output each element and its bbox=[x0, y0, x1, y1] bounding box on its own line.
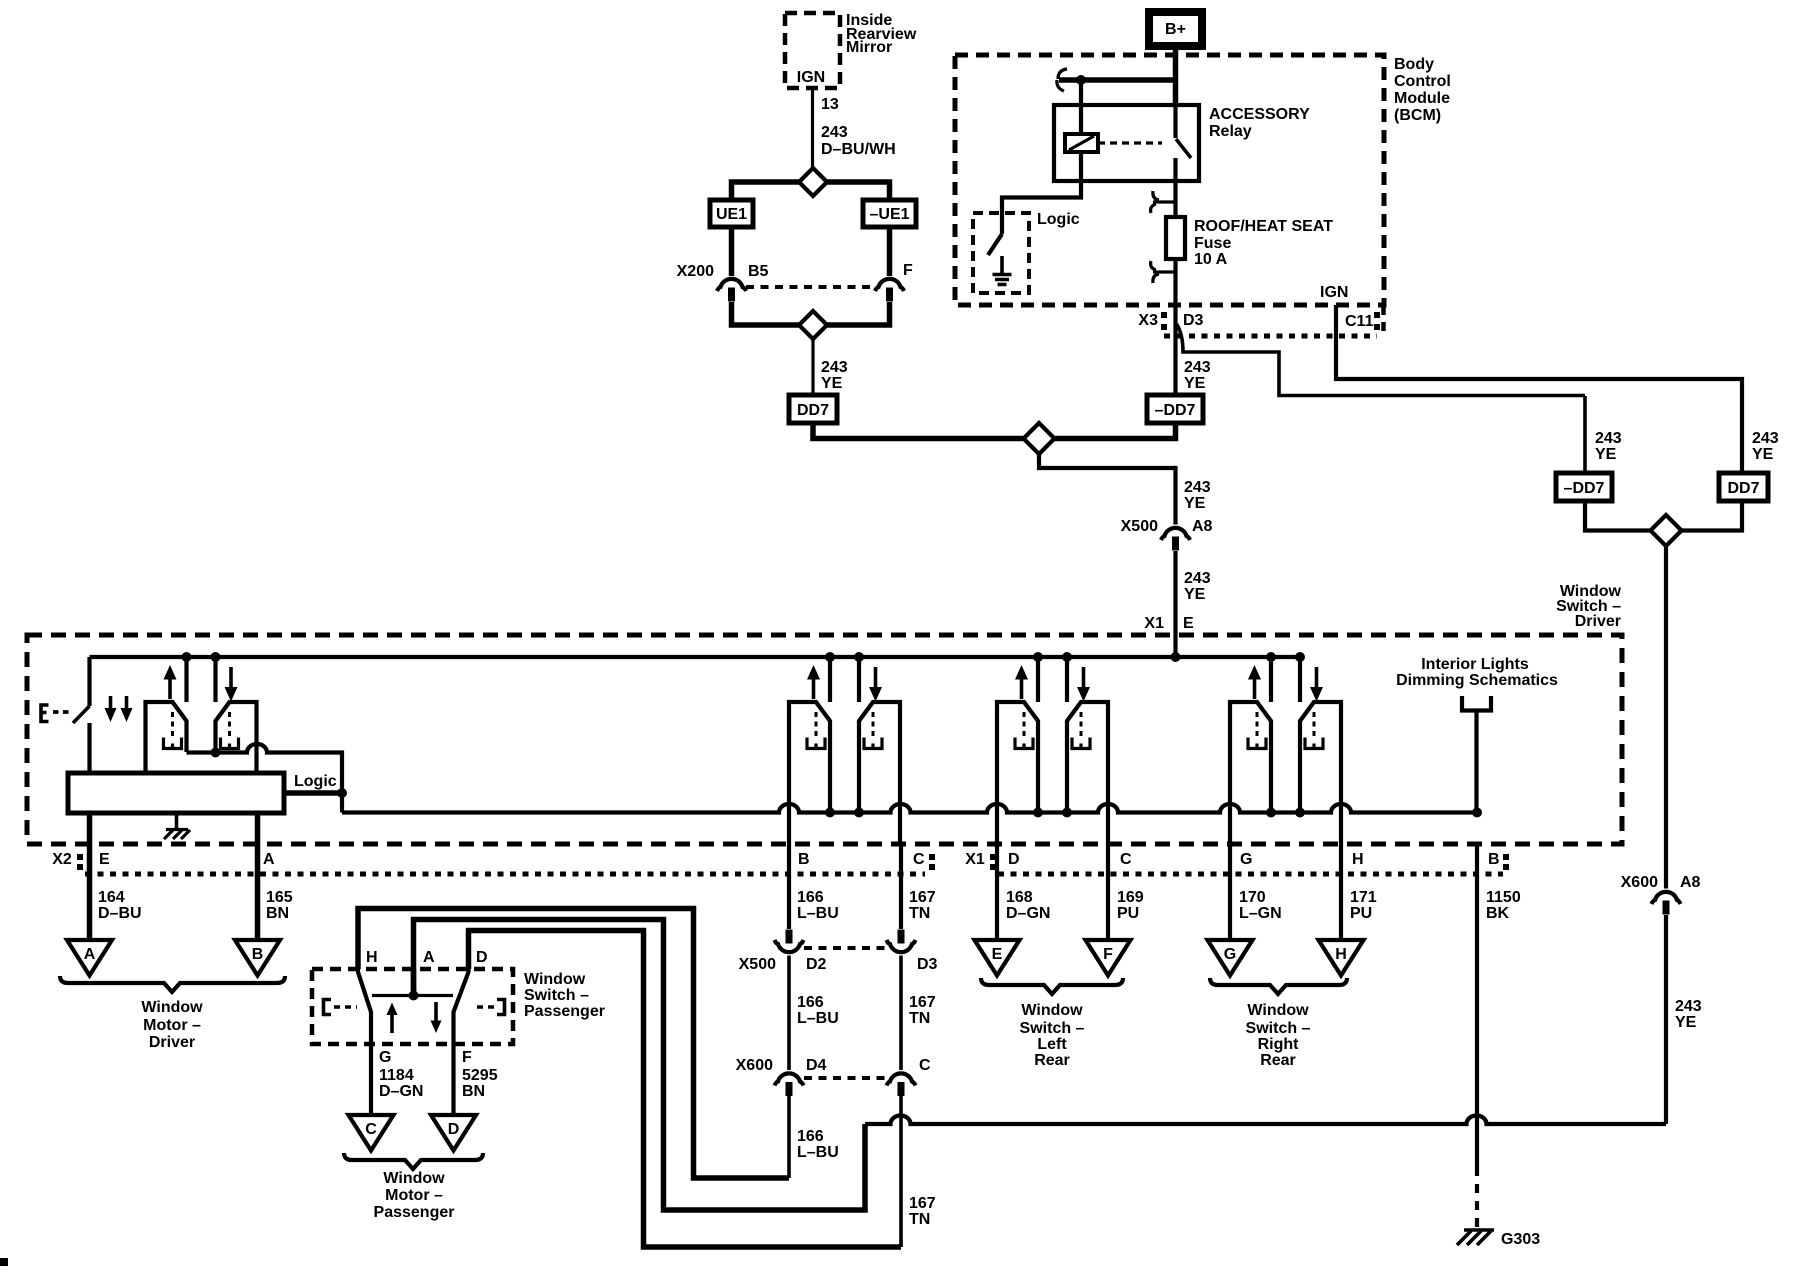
svg-text:Driver: Driver bbox=[1575, 613, 1621, 630]
svg-text:L–GN: L–GN bbox=[1239, 905, 1282, 922]
svg-text:Logic: Logic bbox=[294, 773, 337, 790]
svg-text:C: C bbox=[919, 1057, 931, 1074]
svg-text:A: A bbox=[423, 949, 435, 966]
svg-text:171: 171 bbox=[1350, 889, 1377, 906]
svg-text:D3: D3 bbox=[917, 956, 938, 973]
svg-text:170: 170 bbox=[1239, 889, 1266, 906]
svg-text:Passenger: Passenger bbox=[524, 1003, 605, 1020]
svg-text:169: 169 bbox=[1117, 889, 1144, 906]
svg-text:10 A: 10 A bbox=[1194, 251, 1228, 268]
svg-text:Interior Lights: Interior Lights bbox=[1421, 656, 1529, 673]
svg-text:Window: Window bbox=[383, 1170, 445, 1187]
svg-text:X1: X1 bbox=[965, 851, 985, 868]
svg-text:YE: YE bbox=[1675, 1014, 1697, 1031]
svg-text:168: 168 bbox=[1006, 889, 1033, 906]
svg-text:243: 243 bbox=[821, 124, 848, 141]
svg-text:E: E bbox=[99, 851, 110, 868]
svg-text:Window: Window bbox=[1247, 1002, 1309, 1019]
svg-text:A8: A8 bbox=[1680, 874, 1701, 891]
svg-text:C: C bbox=[1120, 851, 1132, 868]
svg-text:X600: X600 bbox=[736, 1057, 773, 1074]
svg-text:1150: 1150 bbox=[1486, 889, 1521, 906]
svg-text:Mirror: Mirror bbox=[846, 39, 892, 56]
svg-text:ROOF/HEAT SEAT: ROOF/HEAT SEAT bbox=[1194, 218, 1333, 235]
svg-text:166: 166 bbox=[797, 1128, 824, 1145]
svg-text:B: B bbox=[1488, 851, 1500, 868]
svg-text:H: H bbox=[1352, 851, 1364, 868]
svg-text:–DD7: –DD7 bbox=[1564, 480, 1605, 497]
svg-text:G: G bbox=[379, 1049, 391, 1066]
svg-text:Motor –: Motor – bbox=[385, 1187, 443, 1204]
svg-text:243: 243 bbox=[1184, 359, 1211, 376]
svg-text:B5: B5 bbox=[748, 263, 769, 280]
svg-text:A8: A8 bbox=[1192, 518, 1213, 535]
svg-text:–UE1: –UE1 bbox=[869, 206, 909, 223]
svg-text:G: G bbox=[1240, 851, 1252, 868]
svg-text:Module: Module bbox=[1394, 90, 1450, 107]
svg-text:167: 167 bbox=[909, 889, 936, 906]
svg-text:L–BU: L–BU bbox=[797, 905, 839, 922]
svg-text:5295: 5295 bbox=[462, 1067, 498, 1084]
svg-text:D–BU: D–BU bbox=[98, 905, 142, 922]
svg-text:B: B bbox=[252, 946, 264, 963]
svg-text:A: A bbox=[263, 851, 275, 868]
svg-text:X600: X600 bbox=[1621, 874, 1658, 891]
svg-text:243: 243 bbox=[1675, 998, 1702, 1015]
svg-text:C: C bbox=[365, 1121, 377, 1138]
svg-text:X200: X200 bbox=[677, 263, 714, 280]
svg-text:D: D bbox=[476, 949, 488, 966]
svg-text:C: C bbox=[913, 851, 925, 868]
svg-text:Relay: Relay bbox=[1209, 123, 1252, 140]
svg-text:166: 166 bbox=[797, 994, 824, 1011]
svg-text:B+: B+ bbox=[1165, 21, 1186, 38]
svg-text:–DD7: –DD7 bbox=[1155, 402, 1196, 419]
svg-text:D3: D3 bbox=[1183, 312, 1204, 329]
svg-text:H: H bbox=[366, 949, 378, 966]
svg-text:Window: Window bbox=[524, 971, 586, 988]
svg-text:X500: X500 bbox=[739, 956, 776, 973]
svg-text:ACCESSORY: ACCESSORY bbox=[1209, 106, 1310, 123]
svg-text:UE1: UE1 bbox=[716, 206, 747, 223]
svg-text:H: H bbox=[1335, 946, 1347, 963]
svg-text:Rear: Rear bbox=[1260, 1052, 1296, 1069]
svg-text:Dimming Schematics: Dimming Schematics bbox=[1396, 672, 1558, 689]
svg-text:D: D bbox=[448, 1121, 460, 1138]
svg-text:Body: Body bbox=[1394, 56, 1434, 73]
svg-text:TN: TN bbox=[909, 1211, 930, 1228]
svg-text:YE: YE bbox=[1184, 375, 1206, 392]
svg-text:Window: Window bbox=[141, 999, 203, 1016]
svg-text:Logic: Logic bbox=[1037, 211, 1080, 228]
svg-text:YE: YE bbox=[1184, 495, 1206, 512]
svg-text:D4: D4 bbox=[806, 1057, 827, 1074]
svg-text:A: A bbox=[84, 946, 96, 963]
svg-text:X500: X500 bbox=[1121, 518, 1158, 535]
svg-text:Fuse: Fuse bbox=[1194, 235, 1231, 252]
svg-text:1184: 1184 bbox=[379, 1067, 414, 1084]
svg-text:YE: YE bbox=[821, 375, 843, 392]
svg-text:D–GN: D–GN bbox=[379, 1083, 423, 1100]
svg-text:Right: Right bbox=[1258, 1036, 1300, 1053]
svg-text:IGN: IGN bbox=[1320, 284, 1348, 301]
svg-text:Rear: Rear bbox=[1034, 1052, 1070, 1069]
svg-text:YE: YE bbox=[1752, 446, 1774, 463]
svg-text:243: 243 bbox=[1184, 570, 1211, 587]
svg-text:PU: PU bbox=[1117, 905, 1139, 922]
svg-text:Switch –: Switch – bbox=[1020, 1020, 1085, 1037]
svg-text:243: 243 bbox=[821, 359, 848, 376]
svg-text:BN: BN bbox=[462, 1083, 485, 1100]
svg-text:X3: X3 bbox=[1138, 312, 1158, 329]
svg-text:Switch –: Switch – bbox=[524, 987, 589, 1004]
svg-text:YE: YE bbox=[1184, 586, 1206, 603]
svg-text:13: 13 bbox=[821, 96, 839, 113]
svg-text:F: F bbox=[462, 1049, 472, 1066]
svg-text:Driver: Driver bbox=[149, 1034, 195, 1051]
svg-text:E: E bbox=[1183, 615, 1194, 632]
svg-text:243: 243 bbox=[1752, 430, 1779, 447]
svg-text:Control: Control bbox=[1394, 73, 1451, 90]
svg-text:TN: TN bbox=[909, 1010, 930, 1027]
svg-text:TN: TN bbox=[909, 905, 930, 922]
svg-text:243: 243 bbox=[1184, 479, 1211, 496]
svg-text:IGN: IGN bbox=[797, 69, 825, 86]
svg-text:G303: G303 bbox=[1501, 1231, 1540, 1248]
svg-text:D–GN: D–GN bbox=[1006, 905, 1050, 922]
svg-text:C11: C11 bbox=[1345, 313, 1374, 330]
svg-text:X1: X1 bbox=[1144, 615, 1164, 632]
svg-text:DD7: DD7 bbox=[797, 402, 829, 419]
svg-text:B: B bbox=[798, 851, 810, 868]
svg-text:L–BU: L–BU bbox=[797, 1010, 839, 1027]
svg-text:BN: BN bbox=[266, 905, 289, 922]
svg-text:243: 243 bbox=[1595, 430, 1622, 447]
svg-text:(BCM): (BCM) bbox=[1394, 107, 1441, 124]
svg-text:D2: D2 bbox=[806, 956, 827, 973]
svg-text:166: 166 bbox=[797, 889, 824, 906]
svg-text:D–BU/WH: D–BU/WH bbox=[821, 141, 896, 158]
svg-text:Window: Window bbox=[1021, 1002, 1083, 1019]
svg-text:G: G bbox=[1224, 946, 1236, 963]
svg-text:YE: YE bbox=[1595, 446, 1617, 463]
svg-text:DD7: DD7 bbox=[1727, 480, 1759, 497]
svg-text:L–BU: L–BU bbox=[797, 1144, 839, 1161]
svg-text:Passenger: Passenger bbox=[374, 1204, 455, 1221]
svg-text:D: D bbox=[1008, 851, 1020, 868]
svg-text:167: 167 bbox=[909, 994, 936, 1011]
svg-text:Left: Left bbox=[1037, 1036, 1067, 1053]
svg-text:164: 164 bbox=[98, 889, 125, 906]
svg-text:F: F bbox=[1103, 946, 1113, 963]
svg-text:167: 167 bbox=[909, 1195, 936, 1212]
svg-text:BK: BK bbox=[1486, 905, 1510, 922]
svg-text:Switch –: Switch – bbox=[1246, 1020, 1311, 1037]
svg-text:F: F bbox=[903, 262, 913, 279]
svg-text:PU: PU bbox=[1350, 905, 1372, 922]
svg-text:165: 165 bbox=[266, 889, 293, 906]
svg-text:Motor –: Motor – bbox=[143, 1017, 201, 1034]
svg-text:E: E bbox=[992, 946, 1003, 963]
svg-text:X2: X2 bbox=[52, 851, 72, 868]
